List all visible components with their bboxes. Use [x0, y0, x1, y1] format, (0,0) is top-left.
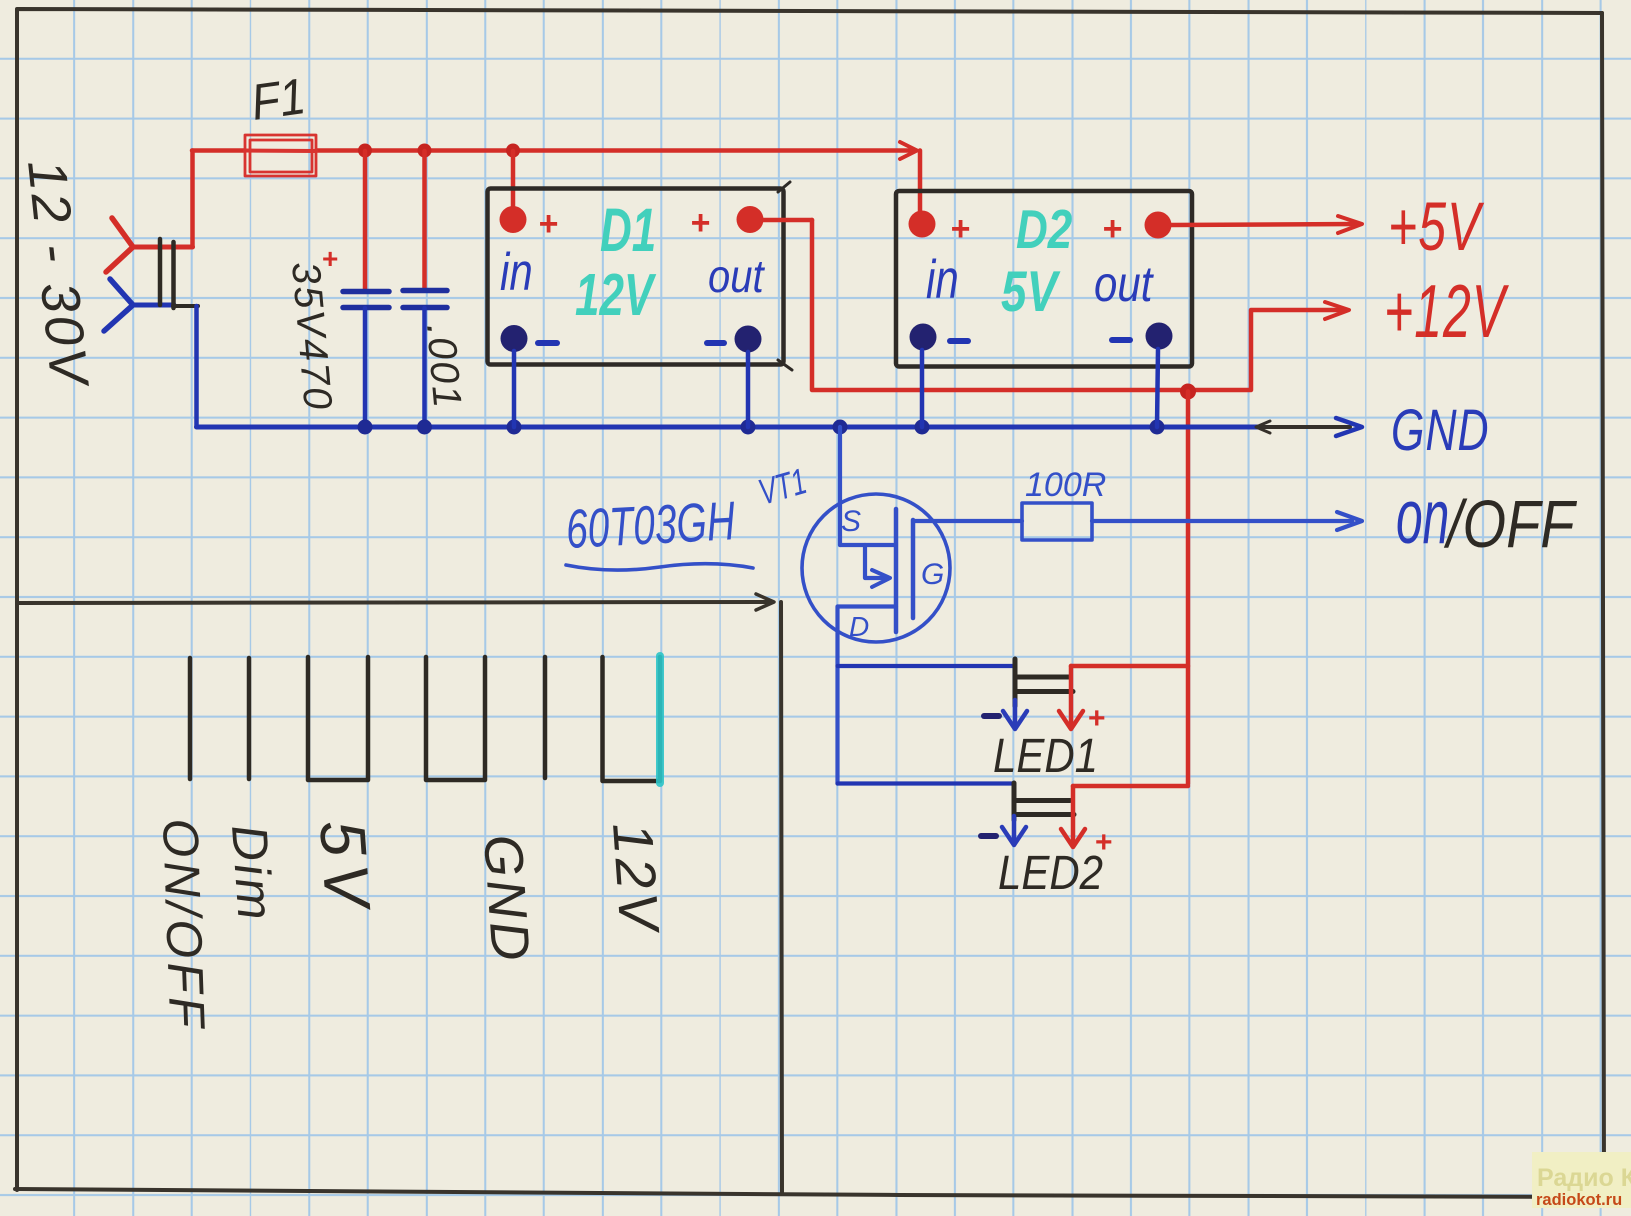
svg-text:D1: D1: [600, 197, 656, 265]
label ON/OFF: [152, 817, 215, 1032]
label F1: [248, 68, 309, 131]
svg-text:G: G: [921, 558, 944, 591]
svg-text:in: in: [926, 250, 959, 311]
D2 labels: [926, 198, 1154, 324]
label GND: [1391, 398, 1490, 463]
svg-text:+: +: [538, 205, 558, 243]
svg-text:12V: 12V: [601, 820, 672, 936]
D2 terminal out-: [1112, 323, 1173, 350]
node GND at C2: [417, 420, 432, 435]
svg-text:+5V: +5V: [1388, 187, 1484, 265]
svg-text:out: out: [1094, 255, 1154, 311]
VT1 pin labels: [841, 505, 944, 642]
wire: drain to LED1: [838, 664, 1016, 668]
wire: drain to LED2: [838, 781, 1014, 785]
connector pin pair GND: [426, 657, 485, 780]
LED1 connector: [984, 659, 1188, 783]
svg-text:+: +: [950, 210, 970, 248]
module D2 box: [896, 191, 1192, 367]
connector pin spare: [543, 657, 548, 778]
node on rail at C1: [358, 144, 372, 158]
wire: D1 out- to GND: [746, 352, 751, 427]
input jack plug (blue prong): [104, 279, 174, 331]
D2 terminal in+: [909, 210, 971, 248]
D1 labels: [500, 197, 765, 329]
fuse F1: [245, 135, 316, 176]
node GND at D1 out-: [741, 420, 756, 435]
svg-text:radiokot.ru: radiokot.ru: [1536, 1191, 1622, 1209]
D1 terminal in-: [501, 325, 558, 352]
partition line of connector area: [17, 594, 782, 1194]
capacitor C1 35V470: [283, 151, 389, 427]
svg-text:12V: 12V: [575, 263, 657, 329]
svg-text:LED1: LED1: [993, 728, 1098, 782]
svg-text:on: on: [1396, 473, 1449, 559]
D1 terminal out+: [690, 204, 764, 242]
watermark radiokot: [1532, 1152, 1631, 1209]
svg-text:60T03GH: 60T03GH: [564, 491, 737, 561]
svg-text:/OFF: /OFF: [1443, 487, 1577, 562]
svg-text:12 - 30V: 12 - 30V: [16, 157, 100, 392]
svg-text:+: +: [690, 204, 710, 242]
label 60T03GH VT1: [564, 460, 811, 570]
svg-text:5V: 5V: [1001, 260, 1061, 324]
module D1 box: [488, 182, 793, 370]
svg-text:5V: 5V: [306, 818, 384, 917]
connector pin Dim: [247, 658, 252, 779]
svg-text:100R: 100R: [1025, 466, 1106, 504]
wire: +5V output: [1172, 216, 1362, 233]
D2 terminal in-: [910, 324, 969, 351]
wire: D1 out to +12V rail: [763, 220, 1349, 390]
node on rail at C2: [418, 144, 432, 158]
wire: LED positive feed: [1186, 392, 1191, 785]
resistor 100R: [1022, 503, 1362, 540]
wire: D2 out- to GND: [1157, 349, 1158, 427]
svg-text:LED2: LED2: [998, 845, 1103, 899]
svg-text:+: +: [1102, 210, 1122, 248]
input jack plug (red prong): [106, 218, 193, 272]
wire: D2 in- to GND: [920, 350, 925, 427]
label on/OFF: [1396, 473, 1577, 562]
svg-text:GND: GND: [472, 833, 541, 966]
svg-text:out: out: [708, 251, 765, 302]
wire: input minus drop: [194, 306, 199, 427]
label +5V: [1388, 187, 1484, 265]
label GND pins: [472, 833, 541, 966]
label Dim: [221, 823, 284, 925]
connector pin pair 12V: [603, 657, 661, 781]
wire: GND bus: [197, 418, 1363, 436]
input jack socket (black): [160, 239, 198, 308]
label 100R: [1025, 466, 1106, 504]
node GND at C1: [358, 420, 373, 435]
label 5V pins: [306, 818, 384, 917]
node GND at D1 in-: [507, 420, 522, 435]
svg-text:+12V: +12V: [1384, 269, 1509, 354]
capacitor C2 .001: [403, 151, 469, 427]
svg-text:Радио КОТ: Радио КОТ: [1537, 1164, 1631, 1192]
teal highlight on 12V pin: [656, 656, 664, 783]
transistor VT1 MOSFET: [802, 427, 1022, 784]
LED2 connector: [981, 783, 1188, 900]
svg-text:F1: F1: [248, 68, 309, 131]
svg-text:Dim: Dim: [221, 823, 284, 925]
node GND at D2 out-: [1150, 420, 1165, 435]
svg-text:S: S: [841, 505, 861, 538]
svg-text:in: in: [500, 244, 533, 303]
svg-text:35V470: 35V470: [283, 260, 340, 413]
label +12V: [1384, 269, 1509, 354]
connector pin ON/OFF: [188, 658, 193, 779]
D2 terminal out+: [1102, 210, 1172, 248]
svg-text:D: D: [849, 611, 869, 642]
svg-text:D2: D2: [1016, 198, 1073, 260]
D1 terminal out-: [707, 326, 762, 353]
label 12V pins: [601, 820, 672, 936]
wire: D1 in- to GND: [512, 351, 517, 427]
wire: +V input rail: [192, 142, 920, 247]
D1 terminal in+: [500, 205, 559, 243]
node GND at D2 in-: [915, 420, 930, 435]
svg-text:GND: GND: [1391, 398, 1490, 463]
wire: D1 in+ drop: [511, 151, 516, 208]
node on rail at D1 in: [506, 144, 520, 158]
svg-text:VT1: VT1: [754, 460, 811, 513]
node GND at VT1 source: [833, 420, 848, 435]
node red junction for LED feed: [1180, 384, 1196, 400]
svg-text:ON/OFF: ON/OFF: [152, 817, 215, 1032]
svg-text:.001: .001: [418, 322, 469, 411]
connector pin pair 5V: [308, 657, 368, 780]
label 12-30V: [16, 157, 100, 392]
